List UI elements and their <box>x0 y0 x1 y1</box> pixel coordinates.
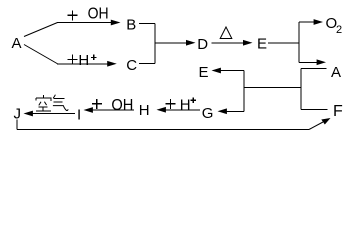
svg-text:E: E <box>257 35 267 52</box>
arrow to G shaft <box>226 110 244 112</box>
arrow A to C shaft <box>57 63 108 65</box>
wire C to bracket <box>139 63 155 65</box>
branch E vertical <box>298 22 300 62</box>
wire A down connector <box>301 68 327 70</box>
arrow D to E shaft <box>212 42 244 44</box>
wire E to branch <box>268 42 299 44</box>
arrowhead to E <box>243 40 253 46</box>
svg-text:H: H <box>139 102 150 119</box>
svg-text:OH: OH <box>111 97 133 114</box>
svg-text:G: G <box>202 105 214 122</box>
svg-text:OH: OH <box>88 6 109 23</box>
arrowhead to I <box>84 107 93 113</box>
triangle heat symbol <box>220 27 232 39</box>
arrow I to J shaft <box>32 113 75 115</box>
arrowhead to O2 <box>314 19 323 25</box>
svg-text:C: C <box>126 57 137 74</box>
label plus sign top <box>68 10 78 20</box>
arrowhead to F diagonal <box>321 118 330 125</box>
svg-text:A: A <box>12 35 22 52</box>
svg-text:E: E <box>199 64 209 81</box>
wire F connector <box>301 109 328 111</box>
arrowhead to J <box>24 111 33 117</box>
wire A to B diagonal <box>24 23 58 37</box>
svg-text:A: A <box>331 64 341 81</box>
label plus sign bottom OH <box>92 99 102 109</box>
wire B to bracket <box>139 22 155 24</box>
label plus sign bottom H <box>166 99 176 109</box>
label kongqi char qi <box>53 95 68 111</box>
svg-text:H: H <box>78 52 89 69</box>
label kongqi char kong <box>36 95 52 111</box>
wire A to C diagonal <box>24 45 58 64</box>
arrowhead to D <box>186 40 196 46</box>
label plus sign mid <box>68 55 78 65</box>
arrowhead to B <box>111 20 121 26</box>
svg-text:F: F <box>333 103 343 120</box>
svg-text:B: B <box>126 16 136 33</box>
arrow bracket to D shaft <box>155 42 187 44</box>
arrowhead to E2 <box>212 68 221 74</box>
svg-text:D: D <box>197 36 208 53</box>
wire diagonal to F <box>309 122 323 130</box>
arrow H to I shaft <box>92 109 134 111</box>
arrow to E2 shaft <box>220 70 244 72</box>
arrow branch to A shaft <box>299 61 317 63</box>
wire bottom long <box>17 129 309 131</box>
label superscript plus mid <box>91 55 97 61</box>
svg-text:H: H <box>180 96 191 113</box>
arrowhead to C <box>107 61 117 67</box>
arrowhead to A2 <box>317 59 326 65</box>
bracket BC vertical <box>154 23 156 63</box>
wire AF bracket vertical <box>300 69 302 110</box>
arrow branch to O2 shaft <box>299 21 314 23</box>
bracket EG vertical <box>243 71 245 112</box>
arrowhead to H <box>157 107 166 113</box>
svg-text:I: I <box>77 107 81 124</box>
arrow G to H shaft <box>165 109 200 111</box>
arrowhead to G <box>218 108 227 114</box>
wire J down <box>16 120 18 130</box>
arrow A to B shaft <box>57 22 112 24</box>
svg-text:2: 2 <box>336 24 342 36</box>
wire mid connector <box>244 86 301 88</box>
label superscript plus bottom <box>191 98 197 104</box>
svg-text:J: J <box>14 106 22 123</box>
